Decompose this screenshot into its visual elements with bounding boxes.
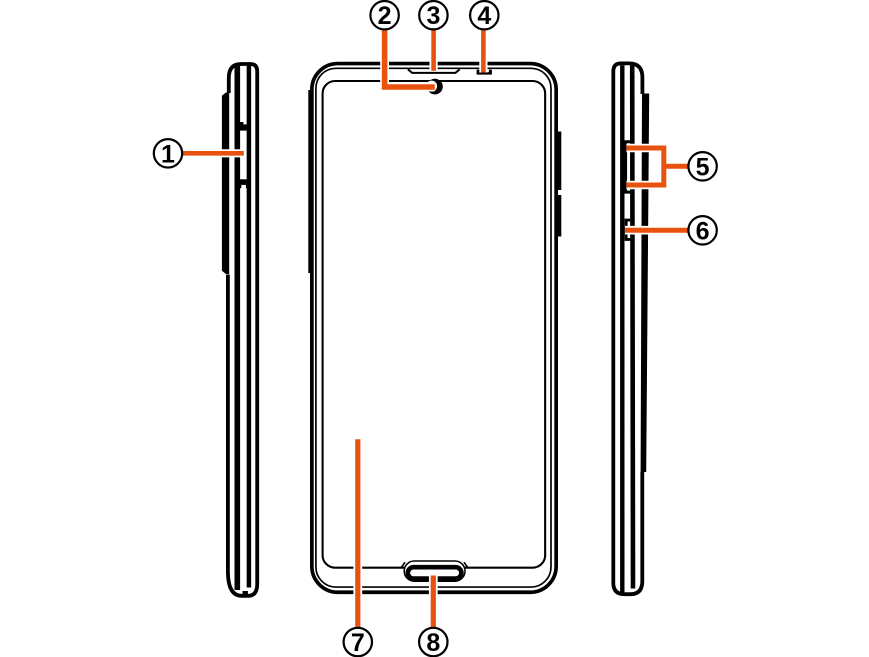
svg-text:1: 1 [161, 140, 175, 168]
svg-text:3: 3 [426, 2, 440, 30]
svg-text:8: 8 [426, 629, 440, 657]
svg-text:4: 4 [477, 2, 491, 30]
svg-text:5: 5 [696, 153, 710, 181]
svg-text:6: 6 [696, 217, 710, 245]
svg-text:7: 7 [351, 629, 365, 657]
svg-text:2: 2 [378, 2, 392, 30]
